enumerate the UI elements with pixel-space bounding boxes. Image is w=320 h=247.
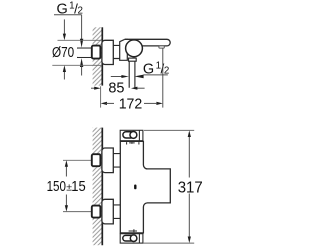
317 ext line top <box>144 129 194 131</box>
bottom handle tick marks <box>129 229 137 232</box>
spout outline <box>125 39 170 46</box>
bottom connection pipe <box>113 205 120 219</box>
Ø70 top extension line <box>58 39 102 41</box>
thermostat body circle <box>126 40 143 57</box>
wall face line (top view) <box>101 27 103 85</box>
dim 85: left outside arrow <box>91 87 95 89</box>
top union nipple (square) <box>92 154 101 166</box>
spout fill <box>125 39 170 46</box>
150 ext line top <box>63 159 92 161</box>
top handle outer <box>120 130 143 140</box>
Ø70 bottom extension line <box>52 64 102 66</box>
bottom handle knob circle <box>130 235 137 242</box>
svg-text:Ø70: Ø70 <box>52 45 74 61</box>
top connection pipe <box>113 154 120 168</box>
top handle inner cap line <box>138 130 140 140</box>
150 ext line bottom <box>63 211 92 213</box>
top escutcheon <box>102 148 113 173</box>
leader arrow to outlet pipe (right side) <box>134 75 143 79</box>
wall extension line below <box>100 86 102 107</box>
svg-text:172: 172 <box>119 96 143 112</box>
top handle grip (stadium) <box>123 132 134 138</box>
shaft of lower arrow <box>81 67 83 76</box>
underline of G1/2 top <box>54 14 82 16</box>
mixer body outline (front view) <box>120 141 170 233</box>
wall face line (bottom view) <box>101 128 103 246</box>
svg-text:15: 15 <box>71 179 85 195</box>
union nut <box>120 39 128 60</box>
bottom escutcheon <box>102 199 113 224</box>
inward arrow left of outlet pipe <box>111 76 122 78</box>
top handle knob circle <box>130 131 137 138</box>
outlet pipe (vertical) <box>129 61 135 87</box>
union pipe to nut <box>113 45 119 58</box>
escutcheon (side view) <box>102 40 113 64</box>
underline of G1/2 bottom <box>144 74 168 76</box>
G1/2 wall union nipple (square) <box>92 46 101 59</box>
svg-text:85: 85 <box>108 80 124 97</box>
arrowhead to supply pipe (from below) <box>80 58 83 67</box>
svg-text:150: 150 <box>47 179 66 195</box>
Ø70 bottom arrow <box>63 72 65 80</box>
leader line from G1/2 top <box>81 15 83 39</box>
dim 85: right outside arrow <box>136 87 144 89</box>
mousseur tick under spout <box>159 46 164 48</box>
top handle tick marks <box>127 142 139 144</box>
supply pipe stub in wall <box>77 48 92 57</box>
outlet collar <box>129 58 137 61</box>
Ø70 top arrow <box>63 19 65 34</box>
bottom handle grip (stadium) <box>123 235 134 241</box>
outlet dark dash on body <box>134 185 136 190</box>
dim 150±15 line + arrows <box>65 166 67 176</box>
bottom handle outer <box>120 234 143 243</box>
dim 172: left arrow <box>101 102 107 105</box>
bottom union nipple (square) <box>92 206 101 218</box>
dim 317 line + arrows <box>188 136 190 177</box>
wall hatching (bottom view) <box>93 128 102 246</box>
svg-text:317: 317 <box>178 180 203 197</box>
317 ext line bottom <box>143 242 194 244</box>
wall hatching (top view) <box>93 27 102 85</box>
bottom handle inner cap line <box>138 234 140 243</box>
spout extension line <box>162 48 164 107</box>
dim 172: right arrow <box>156 102 162 105</box>
arrowhead to supply pipe (from above) <box>80 39 83 48</box>
